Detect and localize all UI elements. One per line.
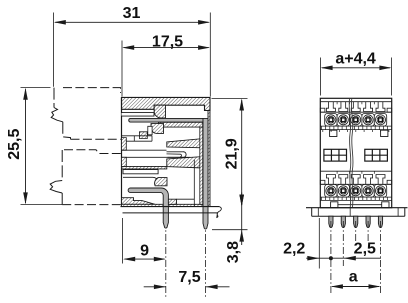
spring curl below upper pin (hatched) — [151, 124, 164, 134]
dimension 2,5 arrow — [344, 257, 381, 259]
rear pin (vertical, upper level) — [203, 118, 208, 229]
upper contact pin (horizontal, gray) — [129, 118, 203, 122]
phantom plug lower deck left edge with latch — [61, 150, 63, 181]
bottom ledge end step right — [387, 180, 392, 184]
front pin 4 — [366, 216, 370, 227]
hatched block above lower pin — [155, 178, 167, 186]
bottom row top line — [320, 170, 391, 172]
extension line bottom of 3,8 (pin tip level) — [212, 229, 248, 231]
dimension 31 line — [55, 21, 209, 23]
dimension 3,8 arrows — [241, 193, 243, 246]
svg-text:7,5: 7,5 — [178, 269, 200, 286]
extension line left of 17,5 — [121, 41, 123, 97]
dimension 9 line — [125, 258, 165, 260]
contact position 5 at row y=113.5 — [374, 114, 386, 127]
top release tooth 4 — [364, 102, 373, 112]
contact position 2 at row y=113.5 — [337, 114, 349, 127]
left wall hatched piece middle — [122, 157, 127, 166]
middle shelf left part (hatched) — [122, 166, 167, 169]
contact position 2 at row y=184.5 — [337, 185, 349, 198]
phantom plug lower deck top edge — [64, 150, 121, 154]
wire channel lines — [122, 149, 167, 151]
housing top cap (hatched) — [122, 97, 211, 110]
contact position 4 at row y=113.5 — [362, 114, 374, 127]
front body outline — [320, 98, 391, 207]
front pin 5 center line — [380, 221, 382, 295]
window above bottom edge pos5 — [382, 202, 389, 208]
contact position 5 at row y=184.5 — [374, 185, 386, 198]
svg-text:17,5: 17,5 — [152, 33, 183, 50]
lower funnel wall (hatched wedge) — [167, 157, 203, 168]
dimension 17,5 line — [124, 47, 209, 49]
extension line bottom of 25,5 — [21, 204, 63, 206]
phantom plug lower deck bottom edge — [62, 204, 121, 206]
contact spring hairpin outer — [167, 152, 187, 158]
extension line right of 31/17.5 — [209, 13, 211, 97]
front pin 3 — [354, 216, 358, 227]
upper white shelf bar — [122, 113, 155, 117]
front body top inner line — [320, 101, 391, 103]
pin 1 center line — [165, 221, 167, 298]
chamber bottom line right — [177, 198, 195, 200]
flange break squiggle — [217, 207, 222, 218]
contact position 4 at row y=184.5 — [362, 185, 374, 198]
svg-text:2,5: 2,5 — [354, 241, 376, 258]
dimension 25,5 line — [25, 89, 27, 203]
front pin 2 center line — [342, 221, 344, 266]
upper funnel wall (hatched wedge) — [167, 139, 203, 148]
dimension 7,5 line left part — [144, 286, 166, 288]
svg-text:25,5: 25,5 — [6, 129, 23, 160]
inner wall line right chamber — [193, 160, 195, 207]
top release tooth 5 — [376, 102, 385, 112]
svg-text:a: a — [349, 268, 358, 285]
front pin 1 center line — [330, 221, 332, 295]
front pin 4 center line — [367, 221, 369, 243]
bottom release tooth 1 — [326, 175, 335, 185]
svg-text:a+4,4: a+4,4 — [335, 51, 376, 68]
shelf connector tick — [153, 109, 155, 112]
dimension a line — [332, 286, 379, 288]
contact spring hairpin inner — [167, 154, 182, 157]
lower band with hook — [123, 177, 158, 181]
front pin 2 — [341, 216, 345, 227]
extension line left of 9 — [121, 218, 123, 264]
top release tooth 2 — [339, 102, 348, 112]
hatched strip left of rear pin — [200, 127, 203, 204]
dimension 21,9 line — [241, 100, 243, 205]
flange bottom line — [123, 212, 218, 214]
top ledge end step left — [320, 108, 325, 112]
bottom release tooth 5 — [376, 175, 385, 185]
contact position 1 at row y=184.5 — [325, 185, 337, 198]
lower white shelf bar — [123, 170, 158, 174]
dimension 7,5 line right part — [206, 286, 230, 288]
svg-text:2,2: 2,2 — [283, 241, 305, 258]
bottom inner line — [338, 204, 382, 206]
contact position 1 at row y=113.5 — [325, 114, 337, 127]
front pin 3 center line — [355, 221, 357, 243]
break line right — [351, 98, 353, 207]
upper chamber shelf (hatched) — [158, 122, 202, 127]
bottom tick band — [320, 196, 391, 198]
housing left wall — [121, 97, 123, 206]
spring tail into lower wedge — [190, 157, 195, 159]
top tick band — [320, 125, 391, 127]
extension line body left edge front — [318, 218, 320, 269]
extension line top of 21,9 — [212, 97, 248, 99]
right waffle block — [365, 149, 388, 161]
contact position 3 at row y=113.5 — [350, 114, 362, 127]
bottom ledge end step left — [320, 180, 325, 184]
top release tooth 1 — [326, 102, 335, 112]
top ledge end step right — [387, 108, 392, 112]
bottom release tooth 4 — [364, 175, 373, 185]
front pin 5 — [378, 216, 382, 227]
phantom plug upper deck top edge — [63, 88, 121, 93]
svg-text:3,8: 3,8 — [225, 241, 242, 263]
bottom hatched band — [122, 204, 203, 206]
bottom ledge line — [320, 183, 391, 185]
svg-text:9: 9 — [140, 242, 149, 259]
top release tooth 3 — [351, 102, 360, 112]
node dot pin1 center — [329, 256, 333, 260]
extension line left of 31 — [53, 13, 55, 87]
flange top line — [121, 206, 220, 208]
hatched step below white step — [139, 132, 147, 139]
upper opening bar lines — [122, 135, 153, 137]
left waffle block — [324, 149, 347, 161]
teeth gap ticks top — [336, 102, 338, 105]
extension line left of a+4,4 — [319, 58, 321, 96]
front pin (right-angle, lower level, gray) — [128, 188, 168, 228]
flange tick left — [317, 208, 319, 217]
phantom plug upper deck bottom edge — [71, 138, 121, 140]
bottom release tooth 2 — [339, 175, 348, 185]
window below contact 1 — [330, 130, 337, 136]
flange front view — [312, 208, 405, 217]
dimension a+4,4 line — [322, 67, 390, 69]
top ledge line — [320, 111, 391, 113]
hatched block right of pin bend — [168, 199, 176, 204]
pin 2 center line — [205, 221, 207, 298]
left wall hatched piece upper — [122, 138, 127, 151]
extension line top of 25,5 — [21, 87, 51, 89]
window above bottom edge pos1 — [331, 202, 338, 208]
flange tick right — [397, 208, 399, 217]
teeth gap ticks bottom — [336, 171, 338, 174]
lower bottom blocks (hatched) — [122, 198, 156, 205]
contact position 3 at row y=184.5 — [350, 185, 362, 198]
window below contact 5 — [381, 130, 388, 136]
white step lines upper chamber — [148, 126, 152, 135]
extension line right of a+4,4 — [391, 58, 393, 96]
bottom release tooth 3 — [351, 175, 360, 185]
housing right wall (hatched) — [208, 111, 210, 207]
upper hatched block right of shelf — [154, 105, 165, 118]
svg-text:21,9: 21,9 — [224, 138, 241, 169]
dimension 2,2 leader and arrow — [306, 257, 344, 259]
phantom plug upper deck left edge with latch — [53, 88, 55, 108]
break line left — [349, 98, 351, 216]
front pin 1 — [329, 216, 333, 227]
svg-text:31: 31 — [123, 5, 141, 22]
